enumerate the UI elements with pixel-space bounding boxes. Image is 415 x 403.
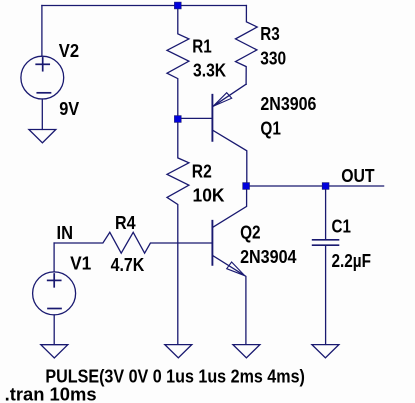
resistor R2 bbox=[167, 122, 189, 345]
transistor Q1 bbox=[211, 95, 213, 141]
wire Q1 emitter diagonal bbox=[213, 84, 246, 106]
capacitor C1 bbox=[313, 240, 339, 245]
svg-text:PULSE(3V 0V 0 1us 1us 2ms 4ms): PULSE(3V 0V 0 1us 1us 2ms 4ms) bbox=[45, 367, 305, 387]
ground (C1) bbox=[312, 345, 339, 358]
wire Q2 emitter bbox=[213, 256, 246, 345]
wire IN rail / resistor R4 bbox=[54, 232, 212, 253]
wire top rail bbox=[42, 5, 247, 7]
svg-text:9V: 9V bbox=[59, 99, 79, 119]
voltage source V2 bbox=[21, 56, 64, 99]
node junction R1/R2/base bbox=[174, 116, 181, 123]
transistor Q2 bbox=[211, 221, 213, 265]
wire Q2 collector bbox=[213, 189, 247, 227]
wire V1 top lead bbox=[53, 243, 55, 272]
resistor R3 bbox=[236, 6, 258, 85]
svg-text:2N3904: 2N3904 bbox=[240, 247, 296, 267]
wire V2 bottom lead bbox=[41, 99, 43, 129]
ground (V1) bbox=[41, 345, 68, 358]
ground (V2) bbox=[29, 130, 56, 143]
svg-text:R1: R1 bbox=[192, 37, 212, 57]
svg-text:2N3906: 2N3906 bbox=[260, 94, 316, 114]
wire Q1 collector bbox=[213, 130, 247, 183]
svg-text:Q1: Q1 bbox=[260, 119, 281, 139]
node junction Q1 collector / OUT bbox=[243, 183, 250, 190]
svg-text:V2: V2 bbox=[59, 41, 79, 61]
svg-text:2.2µF: 2.2µF bbox=[332, 251, 372, 271]
svg-text:OUT: OUT bbox=[341, 166, 374, 186]
svg-text:R4: R4 bbox=[115, 213, 136, 233]
wire C1 bottom lead bbox=[325, 246, 327, 345]
ground (Q2 emitter) bbox=[233, 345, 260, 358]
node junction top rail / R1 bbox=[174, 2, 181, 9]
svg-text:330: 330 bbox=[260, 49, 286, 69]
ground (R2 bottom) bbox=[165, 345, 192, 358]
node junction C1 / OUT bbox=[322, 183, 329, 190]
svg-text:Q2: Q2 bbox=[240, 223, 261, 243]
svg-text:V1: V1 bbox=[70, 254, 91, 274]
wire C1 top lead bbox=[325, 189, 327, 239]
wire V2 top lead bbox=[41, 6, 43, 57]
voltage source V1 bbox=[33, 272, 76, 315]
svg-text:.tran 10ms: .tran 10ms bbox=[5, 385, 97, 403]
wire Q1 base bbox=[178, 117, 212, 119]
svg-text:C1: C1 bbox=[332, 216, 351, 236]
wire V1 bottom lead bbox=[53, 315, 55, 345]
svg-text:4.7K: 4.7K bbox=[111, 255, 145, 275]
resistor R1 bbox=[167, 6, 189, 116]
svg-text:R2: R2 bbox=[192, 162, 212, 182]
svg-text:10K: 10K bbox=[193, 186, 225, 206]
wire OUT rail bbox=[246, 185, 384, 187]
svg-text:R3: R3 bbox=[260, 24, 280, 44]
svg-text:IN: IN bbox=[57, 223, 74, 243]
svg-text:3.3K: 3.3K bbox=[193, 61, 226, 81]
